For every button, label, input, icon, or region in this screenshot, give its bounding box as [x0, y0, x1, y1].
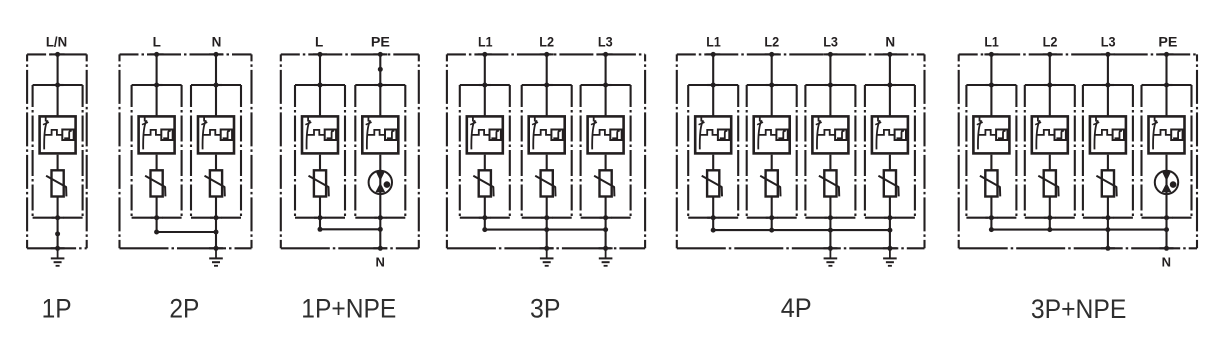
module-top junction dot L1 (3P)	[479, 84, 491, 86]
wire terminal N (2P) down to module	[215, 54, 217, 115]
module-bottom junction dot L3 (3P)	[600, 217, 612, 219]
svg-text:L2: L2	[764, 35, 779, 50]
svg-text:L2: L2	[539, 35, 554, 50]
terminal junction dot PE (1P+NPE)	[373, 53, 387, 55]
wire icon box to varistor L (1P+NPE)	[319, 155, 321, 170]
section 3P+NPE outer enclosure (dash-dot border)	[959, 54, 1197, 248]
earth ground symbol at x=605.6 (3P)	[599, 248, 613, 265]
svg-text:1P: 1P	[42, 294, 72, 324]
svg-text:L1: L1	[478, 35, 493, 50]
wire terminal L1 (4P) down to module	[712, 54, 714, 115]
terminal junction dot L2 (4P)	[765, 53, 779, 55]
indicator window L1 (3P+NPE)	[996, 130, 1007, 141]
wire terminal L1 (3P+NPE) down to module	[990, 54, 992, 115]
wire through gas discharge tube PE (1P+NPE)	[379, 155, 381, 218]
wire varistor to module bottom N (2P)	[215, 197, 217, 218]
module-top junction dot PE (3P+NPE)	[1161, 84, 1173, 86]
disconnector switch symbol L2 (4P)	[757, 116, 776, 150]
section 1P outer enclosure (dash-dot border)	[27, 54, 87, 248]
wire terminal L/N (1P) down to module	[57, 54, 59, 115]
svg-text:L2: L2	[1043, 35, 1058, 50]
section 3P outer enclosure (dash-dot border)	[447, 54, 645, 248]
disconnector/indicator icon box L2 (4P)	[754, 116, 790, 153]
wire terminal L2 (3P+NPE) down to module	[1049, 54, 1051, 115]
wire icon box to varistor L (2P)	[156, 155, 158, 170]
terminal junction dot L1 (3P)	[478, 53, 492, 55]
bottom bus wire (2P)	[157, 231, 216, 233]
disconnector switch symbol N (2P)	[201, 116, 220, 150]
wire varistor to module bottom L2 (3P)	[546, 197, 548, 218]
terminal junction dot N (4P)	[883, 53, 897, 55]
bus junction dot at x=320 (1P+NPE)	[318, 227, 323, 232]
varistor (MOV) L/N (1P)	[46, 170, 66, 196]
module-top junction dot PE (1P+NPE)	[374, 84, 386, 86]
svg-text:L1: L1	[984, 35, 999, 50]
varistor (MOV) L3 (4P)	[819, 170, 839, 196]
wire varistor to module bottom L3 (3P+NPE)	[1107, 197, 1109, 218]
border-crossing junction dot at x=889.9 (4P)	[883, 247, 897, 249]
svg-text:L3: L3	[598, 35, 613, 50]
wire module bottom to bus at x=546.7 (3P)	[546, 218, 548, 230]
mid junction dot (1P)	[55, 231, 60, 236]
bottom bus wire (3P)	[485, 229, 606, 231]
wire varistor to module bottom L3 (3P)	[605, 197, 607, 218]
wire terminal PE (3P+NPE) down to module	[1165, 54, 1167, 115]
varistor (MOV) L2 (3P)	[535, 170, 555, 196]
svg-text:1P+NPE: 1P+NPE	[301, 294, 396, 324]
wire bus to enclosure bottom at x=1166.5 (3P+NPE)	[1165, 230, 1167, 249]
indicator window L1 (4P)	[718, 130, 729, 141]
terminal junction dot L2 (3P)	[540, 53, 554, 55]
wire varistor to module bottom N (4P)	[889, 197, 891, 218]
module-bottom junction dot L1 (3P)	[479, 217, 491, 219]
border-crossing junction dot at x=1107.9 (3P+NPE)	[1101, 247, 1115, 249]
indicator window N (2P)	[221, 130, 232, 141]
indicator window N (4P)	[895, 130, 906, 141]
wire module bottom to enclosure bottom (1P)	[57, 218, 59, 249]
disconnector switch symbol PE (3P+NPE)	[1152, 116, 1171, 150]
SPD module enclosure L (2P) (dash-dot)	[132, 85, 182, 218]
gas discharge tube PE (3P+NPE)	[1155, 171, 1178, 194]
varistor (MOV) L2 (4P)	[760, 170, 780, 196]
bus junction dot at x=889.9 (4P)	[887, 228, 892, 233]
terminal junction dot L/N (1P)	[51, 53, 65, 55]
disconnector/indicator icon box L3 (4P)	[812, 116, 848, 153]
wire varistor to module bottom L (2P)	[156, 197, 158, 218]
disconnector/indicator icon box L/N (1P)	[40, 116, 76, 153]
indicator window L (1P+NPE)	[325, 130, 336, 141]
disconnector switch symbol L/N (1P)	[43, 116, 62, 150]
wire varistor to module bottom L2 (4P)	[771, 197, 773, 218]
module-bottom junction dot PE (1P+NPE)	[374, 217, 386, 219]
bus junction dot at x=991.4 (3P+NPE)	[989, 227, 994, 232]
wire module bottom to bus at x=991.4 (3P+NPE)	[990, 218, 992, 230]
disconnector switch symbol L1 (4P)	[699, 116, 718, 150]
junction dot on PE lead (1P+NPE)	[378, 67, 383, 72]
border-crossing junction dot at x=605.6 (3P)	[599, 247, 613, 249]
border-crossing junction dot at x=380.3 (1P+NPE)	[373, 247, 387, 249]
wire bus to enclosure bottom at x=1107.9 (3P+NPE)	[1107, 230, 1109, 249]
disconnector switch symbol L1 (3P+NPE)	[977, 116, 996, 150]
wire bus to enclosure bottom at x=605.6 (3P)	[605, 230, 607, 249]
module-top junction dot L3 (4P)	[824, 84, 836, 86]
varistor (MOV) L1 (4P)	[702, 170, 722, 196]
varistor (MOV) L2 (3P+NPE)	[1038, 170, 1058, 196]
earth ground symbol at x=889.9 (4P)	[883, 248, 897, 265]
varistor (MOV) L3 (3P+NPE)	[1096, 170, 1116, 196]
wire module bottom to bus at x=216 (2P)	[215, 218, 217, 232]
svg-text:PE: PE	[371, 35, 390, 50]
module-top junction dot L2 (3P)	[541, 84, 553, 86]
disconnector/indicator icon box L (2P)	[139, 116, 175, 153]
SPD module enclosure PE (1P+NPE) (dash-dot)	[355, 85, 405, 218]
module-bottom junction dot L3 (3P+NPE)	[1102, 217, 1114, 219]
disconnector switch symbol L2 (3P)	[532, 116, 551, 150]
svg-text:L: L	[153, 35, 161, 50]
SPD module enclosure L3 (3P) (dash-dot)	[581, 85, 631, 218]
border-crossing junction dot at x=1166.5 (3P+NPE)	[1160, 247, 1174, 249]
varistor (MOV) N (4P)	[878, 170, 898, 196]
indicator window PE (1P+NPE)	[385, 130, 396, 141]
module-bottom junction dot L/N (1P)	[52, 217, 64, 219]
svg-text:4P: 4P	[781, 293, 812, 323]
terminal junction dot L1 (3P+NPE)	[984, 53, 998, 55]
wire varistor to module bottom L (1P+NPE)	[319, 197, 321, 218]
module-bottom junction dot L2 (3P)	[541, 217, 553, 219]
wire icon box to varistor L1 (3P)	[484, 155, 486, 170]
wire terminal L3 (4P) down to module	[829, 54, 831, 115]
disconnector/indicator icon box L3 (3P)	[588, 116, 624, 153]
SPD module enclosure N (2P) (dash-dot)	[191, 85, 241, 218]
module-top junction dot L/N (1P)	[52, 84, 64, 86]
disconnector/indicator icon box L2 (3P)	[529, 116, 565, 153]
indicator window L/N (1P)	[62, 130, 73, 141]
wire module bottom to bus at x=1107.9 (3P+NPE)	[1107, 218, 1109, 230]
SPD module enclosure L1 (3P+NPE) (dash-dot)	[966, 85, 1016, 218]
SPD module enclosure L3 (3P+NPE) (dash-dot)	[1083, 85, 1133, 218]
module-top junction dot L1 (3P+NPE)	[985, 84, 997, 86]
wire module bottom to bus at x=1049.8 (3P+NPE)	[1049, 218, 1051, 230]
indicator window L2 (3P+NPE)	[1055, 130, 1066, 141]
wire icon box to varistor N (4P)	[889, 155, 891, 170]
varistor (MOV) L1 (3P+NPE)	[980, 170, 1000, 196]
SPD module enclosure L2 (4P) (dash-dot)	[747, 85, 797, 218]
module-bottom junction dot PE (3P+NPE)	[1161, 217, 1173, 219]
wire varistor to module bottom L2 (3P+NPE)	[1049, 197, 1051, 218]
wire module bottom to bus at x=771.7 (4P)	[771, 218, 773, 230]
varistor (MOV) L (1P+NPE)	[309, 170, 329, 196]
bottom bus wire (3P+NPE)	[991, 229, 1166, 231]
module-top junction dot L3 (3P+NPE)	[1102, 84, 1114, 86]
varistor (MOV) L3 (3P)	[594, 170, 614, 196]
disconnector switch symbol L (1P+NPE)	[305, 116, 324, 150]
module-top junction dot N (2P)	[210, 84, 222, 86]
wire icon box to varistor L1 (3P+NPE)	[990, 155, 992, 170]
disconnector switch symbol L3 (3P)	[591, 116, 610, 150]
indicator window L1 (3P)	[490, 130, 501, 141]
disconnector/indicator icon box L2 (3P+NPE)	[1032, 116, 1068, 153]
wire terminal L1 (3P) down to module	[484, 54, 486, 115]
bus junction dot at x=216 (2P)	[214, 230, 219, 235]
svg-text:N: N	[1162, 255, 1171, 270]
indicator window L2 (3P)	[551, 130, 562, 141]
bus junction dot at x=830.4 (4P)	[828, 228, 833, 233]
wire icon box to varistor L2 (4P)	[771, 155, 773, 170]
border-crossing junction dot at x=216 (2P)	[209, 247, 223, 249]
wire module bottom to bus at x=605.6 (3P)	[605, 218, 607, 230]
SPD module enclosure L1 (4P) (dash-dot)	[688, 85, 738, 218]
SPD module enclosure L3 (4P) (dash-dot)	[805, 85, 855, 218]
wire bus to enclosure bottom at x=546.7 (3P)	[546, 230, 548, 249]
SPD module enclosure L/N (1P) (dash-dot)	[33, 85, 83, 218]
terminal junction dot L (1P+NPE)	[313, 53, 327, 55]
wire terminal N (4P) down to module	[889, 54, 891, 115]
section 4P outer enclosure (dash-dot border)	[677, 54, 925, 248]
svg-text:L3: L3	[823, 35, 838, 50]
bus junction dot at x=605.6 (3P)	[603, 227, 608, 232]
wire terminal L (1P+NPE) down to module	[319, 54, 321, 115]
svg-text:N: N	[212, 35, 222, 50]
module-bottom junction dot L (1P+NPE)	[314, 217, 326, 219]
SPD module enclosure L1 (3P) (dash-dot)	[460, 85, 510, 218]
module-bottom junction dot L3 (4P)	[824, 217, 836, 219]
wire module bottom to bus at x=156.6 (2P)	[156, 218, 158, 232]
module-top junction dot N (4P)	[884, 84, 896, 86]
disconnector switch symbol N (4P)	[875, 116, 894, 150]
module-top junction dot L1 (4P)	[707, 84, 719, 86]
wire module bottom to bus at x=713.2 (4P)	[712, 218, 714, 230]
border-crossing junction dot (1P)	[51, 247, 65, 249]
svg-text:2P: 2P	[169, 294, 199, 324]
bus junction dot at x=546.7 (3P)	[544, 227, 549, 232]
wire varistor to module bottom L3 (4P)	[829, 197, 831, 218]
disconnector switch symbol L1 (3P)	[470, 116, 489, 150]
disconnector/indicator icon box PE (3P+NPE)	[1149, 116, 1185, 153]
terminal junction dot L (2P)	[150, 53, 164, 55]
varistor (MOV) L (2P)	[145, 170, 165, 196]
svg-text:L: L	[315, 35, 323, 50]
disconnector switch symbol PE (1P+NPE)	[366, 116, 385, 150]
wire icon box to varistor L/N (1P)	[57, 155, 59, 170]
terminal junction dot PE (3P+NPE)	[1160, 53, 1174, 55]
terminal junction dot L1 (4P)	[706, 53, 720, 55]
bus junction dot at x=771.7 (4P)	[769, 228, 774, 233]
svg-text:3P: 3P	[530, 294, 560, 324]
terminal junction dot L3 (3P)	[599, 53, 613, 55]
wire icon box to varistor L3 (3P)	[605, 155, 607, 170]
section 2P outer enclosure (dash-dot border)	[120, 54, 252, 248]
bus junction dot at x=484.8 (3P)	[482, 227, 487, 232]
wire terminal L3 (3P) down to module	[605, 54, 607, 115]
border-crossing junction dot at x=830.4 (4P)	[823, 247, 837, 249]
wire terminal L2 (4P) down to module	[771, 54, 773, 115]
SPD module enclosure PE (3P+NPE) (dash-dot)	[1142, 85, 1192, 218]
wire terminal L3 (3P+NPE) down to module	[1107, 54, 1109, 115]
disconnector switch symbol L (2P)	[142, 116, 161, 150]
disconnector/indicator icon box L3 (3P+NPE)	[1090, 116, 1126, 153]
wire varistor to module bottom L1 (3P)	[484, 197, 486, 218]
disconnector/indicator icon box PE (1P+NPE)	[362, 116, 398, 153]
disconnector/indicator icon box L1 (4P)	[695, 116, 731, 153]
terminal junction dot L3 (4P)	[823, 53, 837, 55]
earth ground symbol at x=216 (2P)	[209, 248, 223, 265]
module-bottom junction dot N (4P)	[884, 217, 896, 219]
wire icon box to varistor L3 (4P)	[829, 155, 831, 170]
terminal junction dot N (2P)	[209, 53, 223, 55]
varistor (MOV) N (2P)	[205, 170, 225, 196]
SPD module enclosure N (4P) (dash-dot)	[865, 85, 915, 218]
wire varistor to module bottom L1 (3P+NPE)	[990, 197, 992, 218]
wire module bottom to bus at x=830.4 (4P)	[829, 218, 831, 230]
module-top junction dot L (1P+NPE)	[314, 84, 326, 86]
module-bottom junction dot L2 (3P+NPE)	[1044, 217, 1056, 219]
wire bus to enclosure bottom at x=216 (2P)	[215, 232, 217, 248]
earth ground symbol at x=546.7 (3P)	[540, 248, 554, 265]
SPD module enclosure L2 (3P) (dash-dot)	[522, 85, 572, 218]
wire icon box to varistor L3 (3P+NPE)	[1107, 155, 1109, 170]
wire varistor to module bottom L1 (4P)	[712, 197, 714, 218]
earth ground symbol at x=830.4 (4P)	[824, 248, 838, 265]
disconnector/indicator icon box L (1P+NPE)	[302, 116, 338, 153]
disconnector/indicator icon box L1 (3P)	[467, 116, 503, 153]
svg-text:L3: L3	[1101, 35, 1116, 50]
border-crossing junction dot at x=546.7 (3P)	[540, 247, 554, 249]
wire terminal L2 (3P) down to module	[546, 54, 548, 115]
terminal junction dot L2 (3P+NPE)	[1043, 53, 1057, 55]
varistor (MOV) L1 (3P)	[473, 170, 493, 196]
bus junction dot at x=380.3 (1P+NPE)	[378, 227, 383, 232]
disconnector/indicator icon box N (4P)	[872, 116, 908, 153]
wire icon box to varistor L2 (3P+NPE)	[1049, 155, 1051, 170]
wire icon box to varistor L2 (3P)	[546, 155, 548, 170]
disconnector switch symbol L3 (4P)	[816, 116, 835, 150]
indicator window L3 (3P+NPE)	[1113, 130, 1124, 141]
gas discharge tube PE (1P+NPE)	[369, 171, 392, 194]
wire module bottom to bus at x=320 (1P+NPE)	[319, 218, 321, 230]
bottom bus wire (4P)	[713, 229, 890, 231]
wire bus to enclosure bottom at x=830.4 (4P)	[829, 230, 831, 248]
module-bottom junction dot N (2P)	[210, 217, 222, 219]
SPD module enclosure L2 (3P+NPE) (dash-dot)	[1025, 85, 1075, 218]
module-bottom junction dot L2 (4P)	[766, 217, 778, 219]
SPD module enclosure L (1P+NPE) (dash-dot)	[295, 85, 345, 218]
terminal junction dot L3 (3P+NPE)	[1101, 53, 1115, 55]
section 1P+NPE outer enclosure (dash-dot border)	[281, 54, 419, 248]
module-top junction dot L (2P)	[151, 84, 163, 86]
module-bottom junction dot L1 (4P)	[707, 217, 719, 219]
indicator window PE (3P+NPE)	[1171, 130, 1182, 141]
indicator window L2 (4P)	[776, 130, 787, 141]
wire module bottom to bus at x=484.8 (3P)	[484, 218, 486, 230]
disconnector switch symbol L3 (3P+NPE)	[1093, 116, 1112, 150]
module-top junction dot L3 (3P)	[600, 84, 612, 86]
disconnector/indicator icon box N (2P)	[198, 116, 234, 153]
bottom bus wire (1P+NPE)	[320, 228, 380, 230]
svg-text:PE: PE	[1158, 35, 1177, 50]
wire terminal PE (1P+NPE) down to module	[379, 54, 381, 115]
wire module bottom to bus at x=1166.5 (3P+NPE)	[1165, 218, 1167, 230]
svg-text:L/N: L/N	[46, 35, 67, 50]
module-bottom junction dot L1 (3P+NPE)	[985, 217, 997, 219]
bus junction dot at x=1166.5 (3P+NPE)	[1164, 227, 1169, 232]
module-bottom junction dot L (2P)	[151, 217, 163, 219]
wire bus to enclosure bottom at x=380.3 (1P+NPE)	[379, 229, 381, 248]
disconnector switch symbol L2 (3P+NPE)	[1035, 116, 1054, 150]
bus junction dot at x=1049.8 (3P+NPE)	[1047, 227, 1052, 232]
svg-text:L1: L1	[706, 35, 721, 50]
bus junction dot at x=156.6 (2P)	[154, 230, 159, 235]
wire through gas discharge tube PE (3P+NPE)	[1165, 155, 1167, 218]
earth ground symbol at x=57.6 (1P)	[51, 248, 65, 265]
wire icon box to varistor N (2P)	[215, 155, 217, 170]
wire bus to enclosure bottom at x=889.9 (4P)	[889, 230, 891, 248]
bus junction dot at x=1107.9 (3P+NPE)	[1105, 227, 1110, 232]
module-top junction dot L2 (3P+NPE)	[1044, 84, 1056, 86]
svg-text:N: N	[376, 255, 385, 270]
wire module bottom to bus at x=380.3 (1P+NPE)	[379, 218, 381, 230]
wire module bottom to bus at x=889.9 (4P)	[889, 218, 891, 230]
indicator window L (2P)	[161, 130, 172, 141]
bus junction dot at x=713.2 (4P)	[711, 228, 716, 233]
svg-text:N: N	[885, 35, 895, 50]
indicator window L3 (4P)	[835, 130, 846, 141]
module-top junction dot L2 (4P)	[766, 84, 778, 86]
disconnector/indicator icon box L1 (3P+NPE)	[973, 116, 1009, 153]
svg-text:3P+NPE: 3P+NPE	[1031, 294, 1127, 324]
wire varistor to module bottom L/N (1P)	[57, 197, 59, 218]
indicator window L3 (3P)	[610, 130, 621, 141]
wire terminal L (2P) down to module	[156, 54, 158, 115]
wire icon box to varistor L1 (4P)	[712, 155, 714, 170]
